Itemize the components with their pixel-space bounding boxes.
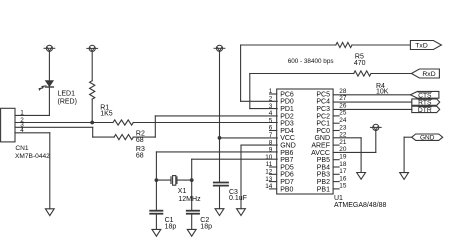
svg-text:XM7B-0442: XM7B-0442 (15, 153, 50, 160)
svg-text:GND: GND (314, 135, 330, 142)
svg-text:TxD: TxD (415, 43, 428, 50)
svg-text:24: 24 (339, 117, 347, 124)
svg-text:(RED): (RED) (58, 98, 77, 105)
svg-text:ATMEGA8/48/88: ATMEGA8/48/88 (334, 202, 387, 209)
svg-text:CTS: CTS (418, 92, 432, 99)
svg-text:1: 1 (20, 110, 24, 117)
svg-text:LED1: LED1 (58, 90, 76, 97)
svg-text:16: 16 (339, 175, 347, 182)
svg-text:1: 1 (269, 88, 273, 95)
svg-text:9: 9 (269, 147, 273, 154)
svg-text:27: 27 (339, 95, 347, 102)
svg-text:PD5: PD5 (280, 164, 294, 171)
svg-text:X1: X1 (178, 188, 187, 195)
svg-text:PB3: PB3 (317, 172, 330, 179)
svg-text:12MHz: 12MHz (178, 196, 201, 203)
svg-text:GND: GND (280, 143, 296, 150)
svg-text:PD1: PD1 (280, 106, 294, 113)
svg-text:26: 26 (339, 102, 347, 109)
svg-text:12: 12 (265, 169, 273, 176)
svg-text:PD7: PD7 (280, 179, 294, 186)
svg-text:PD6: PD6 (280, 172, 294, 179)
svg-text:3: 3 (269, 103, 273, 110)
svg-text:68: 68 (136, 137, 144, 144)
svg-text:PC1: PC1 (316, 121, 330, 128)
svg-text:GND: GND (420, 135, 435, 142)
svg-text:PC5: PC5 (316, 91, 330, 98)
svg-text:VCC: VCC (280, 135, 295, 142)
svg-text:PD2: PD2 (280, 113, 294, 120)
svg-text:10: 10 (265, 154, 273, 161)
svg-text:18p: 18p (200, 224, 212, 231)
svg-text:PC3: PC3 (316, 106, 330, 113)
svg-text:PC6: PC6 (280, 91, 294, 98)
svg-text:19: 19 (339, 154, 347, 161)
svg-text:PB1: PB1 (317, 186, 330, 193)
svg-text:15: 15 (339, 183, 347, 190)
svg-text:6: 6 (269, 125, 273, 132)
svg-text:PC0: PC0 (316, 128, 330, 135)
svg-text:RxD: RxD (422, 71, 435, 78)
svg-text:AREF: AREF (311, 143, 330, 150)
svg-text:20: 20 (339, 146, 347, 153)
svg-text:7: 7 (269, 132, 273, 139)
svg-text:13: 13 (265, 176, 273, 183)
svg-text:4: 4 (269, 110, 273, 117)
svg-text:11: 11 (266, 161, 273, 168)
svg-text:10K: 10K (376, 88, 389, 95)
svg-text:RTS: RTS (418, 100, 432, 107)
svg-text:22: 22 (339, 132, 347, 139)
svg-text:PD3: PD3 (280, 121, 294, 128)
svg-text:5: 5 (269, 117, 273, 124)
svg-text:PD4: PD4 (280, 128, 294, 135)
svg-text:PB2: PB2 (317, 179, 330, 186)
svg-text:PB5: PB5 (317, 157, 330, 164)
svg-text:AVCC: AVCC (311, 150, 330, 157)
svg-text:DTR: DTR (418, 107, 432, 114)
svg-text:17: 17 (339, 168, 347, 175)
svg-text:1K5: 1K5 (100, 111, 113, 118)
svg-text:600 - 38400 bps: 600 - 38400 bps (288, 58, 334, 65)
svg-text:0.1uF: 0.1uF (229, 195, 247, 202)
svg-text:PB7: PB7 (280, 157, 293, 164)
svg-text:PB4: PB4 (317, 164, 330, 171)
svg-text:PD0: PD0 (280, 99, 294, 106)
svg-text:PB6: PB6 (280, 150, 293, 157)
svg-text:PB0: PB0 (280, 186, 293, 193)
svg-text:PC4: PC4 (316, 99, 330, 106)
svg-text:23: 23 (339, 124, 347, 131)
svg-text:8: 8 (269, 139, 273, 146)
svg-text:14: 14 (265, 183, 273, 190)
svg-text:28: 28 (339, 88, 347, 95)
svg-text:18: 18 (339, 161, 347, 168)
svg-text:CN1: CN1 (15, 145, 29, 152)
svg-text:470: 470 (354, 60, 366, 67)
svg-text:21: 21 (339, 139, 347, 146)
svg-text:25: 25 (339, 110, 347, 117)
svg-text:68: 68 (136, 152, 144, 159)
svg-text:4: 4 (20, 127, 24, 134)
svg-text:U1: U1 (334, 195, 343, 202)
svg-text:PC2: PC2 (316, 113, 330, 120)
svg-text:18p: 18p (165, 224, 177, 231)
svg-text:2: 2 (269, 96, 273, 103)
